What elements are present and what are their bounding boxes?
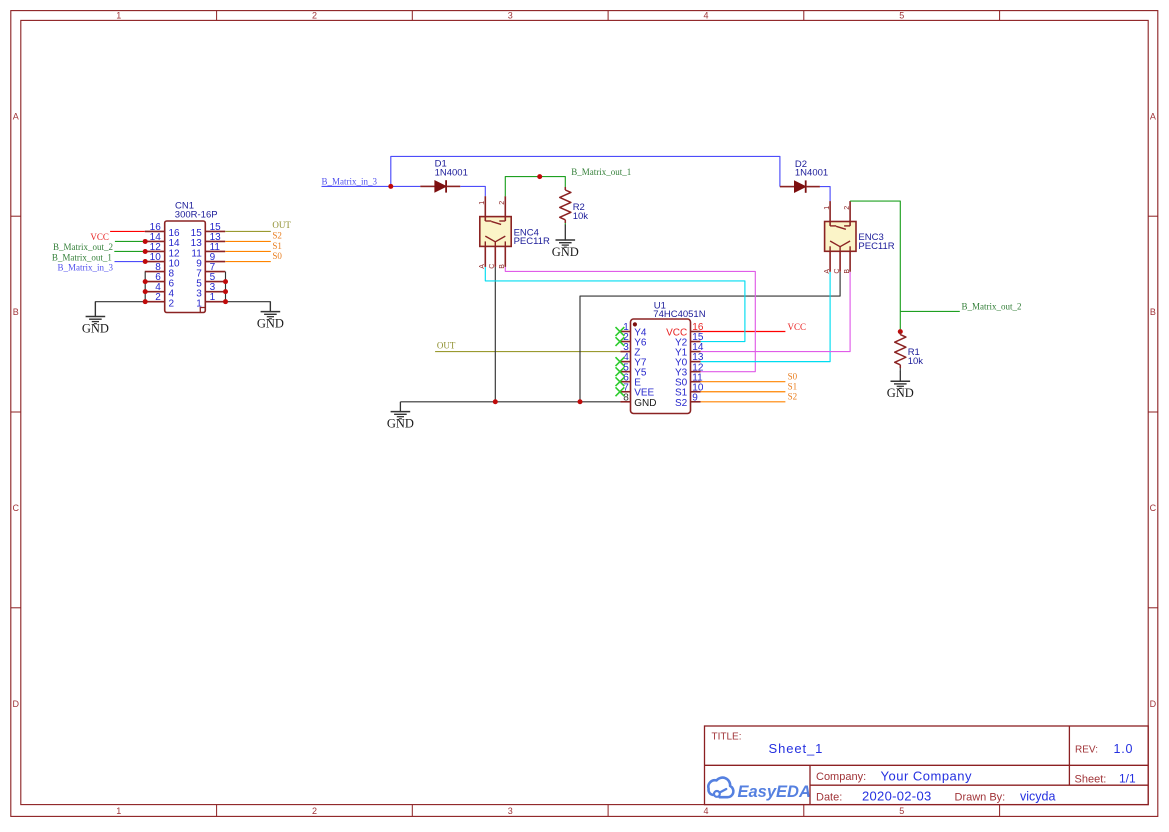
svg-text:1N4001: 1N4001 <box>795 168 828 179</box>
ground (CN1 left) <box>82 302 109 336</box>
svg-text:PEC11R: PEC11R <box>858 241 894 252</box>
svg-text:A: A <box>13 111 19 121</box>
net label OUT (CN1 pin 15) <box>272 220 291 230</box>
svg-text:3: 3 <box>508 806 513 816</box>
net label S2 (at U1) <box>788 391 798 401</box>
junction CN1 pin 10 <box>143 259 148 264</box>
junction CN1 pin 5 <box>223 279 228 284</box>
svg-text:Company:: Company: <box>816 771 866 783</box>
EasyEDA logo <box>708 778 811 801</box>
svg-text:Drawn By:: Drawn By: <box>955 791 1006 803</box>
junction B_Matrix_out_1 <box>537 174 542 179</box>
diode D2 1N4001 <box>780 159 828 193</box>
ground (R1) <box>887 371 914 400</box>
svg-text:1/1: 1/1 <box>1119 771 1136 785</box>
svg-text:vicyda: vicyda <box>1020 790 1055 804</box>
svg-text:10k: 10k <box>573 211 589 222</box>
svg-text:1: 1 <box>196 298 202 309</box>
svg-text:GND: GND <box>634 398 656 409</box>
svg-text:VCC: VCC <box>90 232 109 242</box>
net label S0 (at U1) <box>788 371 798 381</box>
svg-text:2: 2 <box>169 298 175 309</box>
svg-text:S2: S2 <box>788 391 798 401</box>
wire B_Matrix_in_3 label to junction <box>322 185 391 187</box>
net label S1 (CN1 pin 11) <box>272 241 282 251</box>
svg-text:B: B <box>13 307 19 317</box>
junction CN1 pin 2 <box>143 299 148 304</box>
wire D1 cathode to ENC4 pin 1 <box>460 186 485 196</box>
svg-text:2: 2 <box>155 292 161 303</box>
net label S0 (CN1 pin 9) <box>272 251 282 261</box>
wire S0 from U1 pin 11 <box>701 381 786 383</box>
wire D2 cathode to ENC3 pin 1 <box>820 187 830 202</box>
svg-text:TITLE:: TITLE: <box>712 732 742 743</box>
svg-text:C: C <box>1150 503 1157 513</box>
svg-text:S0: S0 <box>272 251 282 261</box>
svg-text:Sheet:: Sheet: <box>1075 773 1107 785</box>
net label VCC (CN1 pin 16) <box>90 232 109 242</box>
svg-text:B: B <box>1150 307 1156 317</box>
connector CN1 300R-16P <box>145 201 225 313</box>
junction ENC4 C on GND rail <box>493 399 498 404</box>
svg-text:S1: S1 <box>272 241 282 251</box>
wire ENC3 pin 2 to R1 (B_Matrix_out_2) <box>849 200 851 202</box>
svg-text:OUT: OUT <box>437 341 456 351</box>
wire ENC4 A to U1 pin 15 (cyan) <box>485 267 745 342</box>
svg-text:1: 1 <box>116 806 121 816</box>
svg-text:D: D <box>1150 699 1157 709</box>
svg-text:74HC4051N: 74HC4051N <box>653 309 705 320</box>
svg-text:S2: S2 <box>675 398 688 409</box>
net label B_Matrix_out_1 (CN1 pin 12) <box>52 252 112 262</box>
svg-text:GND: GND <box>257 317 284 331</box>
ground (CN1 right) <box>257 302 284 331</box>
net label S2 (CN1 pin 13) <box>272 230 282 240</box>
net label B_Matrix_in_3 (at D1) <box>322 177 378 187</box>
svg-text:B_Matrix_out_2: B_Matrix_out_2 <box>53 242 113 252</box>
svg-text:Sheet_1: Sheet_1 <box>769 741 824 756</box>
junction B_Matrix_in_3 node <box>388 184 393 189</box>
svg-text:S0: S0 <box>788 371 798 381</box>
wire B_Matrix_out_1 to CN1 pin 12 <box>114 250 145 252</box>
wire CN1 pins 8-6-4-2 bus to GND <box>95 272 145 317</box>
svg-text:2: 2 <box>312 806 317 816</box>
svg-text:1: 1 <box>116 10 121 20</box>
wire top run to D2 branch <box>391 156 780 186</box>
net label B_Matrix_out_2 (right) <box>962 301 1022 311</box>
wire B_Matrix_out_2 label stub <box>900 310 960 312</box>
svg-text:S1: S1 <box>788 381 798 391</box>
svg-text:D: D <box>13 699 20 709</box>
wire ENC3 pin C to GND rail <box>580 272 840 402</box>
wire ENC3 A to U1 pin 13 (cyan) <box>701 272 831 362</box>
title block <box>705 726 1149 805</box>
U1 pin numbers and names <box>623 322 704 409</box>
svg-text:1N4001: 1N4001 <box>435 168 468 179</box>
multiplexer U1 74HC4051N <box>620 300 705 413</box>
junction CN1 pin 14 <box>143 239 148 244</box>
svg-text:PEC11R: PEC11R <box>514 236 550 247</box>
junction ENC3 C on GND rail <box>578 399 583 404</box>
svg-text:8: 8 <box>623 392 629 403</box>
svg-text:9: 9 <box>692 392 698 403</box>
wire S1 from CN1 pin 11 <box>225 250 271 252</box>
junction CN1 pin 12 <box>143 249 148 254</box>
svg-text:B_Matrix_in_3: B_Matrix_in_3 <box>322 177 378 187</box>
svg-text:4: 4 <box>703 806 708 816</box>
net label B_Matrix_out_1 (at R2) <box>571 167 631 177</box>
net label B_Matrix_in_3 (CN1 pin 10) <box>58 262 114 272</box>
svg-text:4: 4 <box>703 10 708 20</box>
resistor R2 <box>560 187 589 223</box>
wire S2 from U1 pin 9 <box>701 401 786 403</box>
junction R1 top <box>898 329 903 334</box>
junction CN1 pin 3 <box>223 289 228 294</box>
rotary encoder ENC4 PEC11R <box>479 196 550 269</box>
svg-text:5: 5 <box>899 10 904 20</box>
wire OUT to U1 pin 3 <box>435 351 620 353</box>
svg-text:VCC: VCC <box>788 322 807 332</box>
svg-text:2020-02-03: 2020-02-03 <box>862 789 932 804</box>
wire CN1 pins 7-5-3-1 bus to GND <box>226 272 271 312</box>
svg-text:1: 1 <box>824 206 831 210</box>
CN1 pin numbers <box>150 222 221 310</box>
svg-text:Date:: Date: <box>816 791 842 803</box>
wire GND rail to U1 pin 8 <box>400 401 620 403</box>
wire ENC4 pin C to GND rail <box>494 267 496 402</box>
wire S0 from CN1 pin 9 <box>225 261 271 263</box>
junction CN1 pin 4 <box>143 289 148 294</box>
svg-text:2: 2 <box>312 10 317 20</box>
wire B_Matrix_in_3 to CN1 pin 10 <box>115 261 145 263</box>
svg-text:REV:: REV: <box>1075 745 1098 756</box>
svg-text:A: A <box>1150 111 1156 121</box>
ground (U1 rail) <box>387 402 414 431</box>
svg-text:3: 3 <box>508 10 513 20</box>
ground (R2) <box>552 225 579 260</box>
svg-text:1.0: 1.0 <box>1114 742 1134 756</box>
svg-text:2: 2 <box>844 206 851 210</box>
wire ENC4 B to U1 pin 12 (magenta) <box>505 267 755 372</box>
svg-text:Your Company: Your Company <box>881 768 973 783</box>
U1 no-connect marks <box>616 327 625 396</box>
wire ENC3 B to U1 pin 14 (magenta) <box>701 272 851 352</box>
wire S1 from U1 pin 10 <box>701 391 786 393</box>
wire R1 to GND <box>899 368 901 371</box>
wire R2 to GND <box>564 223 566 225</box>
diode D1 1N4001 <box>420 159 468 193</box>
svg-text:2: 2 <box>499 201 506 205</box>
svg-text:EasyEDA: EasyEDA <box>738 783 811 801</box>
junction CN1 pin 1 <box>223 299 228 304</box>
wire S2 from CN1 pin 13 <box>225 240 271 242</box>
svg-text:S2: S2 <box>272 230 282 240</box>
svg-text:1: 1 <box>210 292 216 303</box>
rotary encoder ENC3 PEC11R <box>824 201 895 274</box>
wire B_Matrix_out_2 to CN1 pin 14 <box>115 240 145 242</box>
svg-text:GND: GND <box>387 417 414 431</box>
svg-text:B_Matrix_out_1: B_Matrix_out_1 <box>52 252 112 262</box>
svg-text:B_Matrix_in_3: B_Matrix_in_3 <box>58 262 114 272</box>
svg-text:5: 5 <box>899 806 904 816</box>
svg-text:B_Matrix_out_1: B_Matrix_out_1 <box>571 167 631 177</box>
svg-text:1: 1 <box>479 201 486 205</box>
svg-text:OUT: OUT <box>272 220 291 230</box>
net label OUT (at U1 pin 3) <box>437 341 456 351</box>
wire VCC from U1 pin 16 <box>701 331 786 333</box>
svg-text:300R-16P: 300R-16P <box>175 210 218 221</box>
svg-text:GND: GND <box>887 386 914 400</box>
net label B_Matrix_out_2 (CN1 pin 14) <box>53 242 113 252</box>
junction CN1 pin 6 <box>143 279 148 284</box>
resistor R1 <box>895 332 924 368</box>
svg-text:GND: GND <box>552 245 579 259</box>
net label VCC (at U1) <box>788 322 807 332</box>
wire node to D1 anode <box>391 185 421 187</box>
wire ENC4 pin 2 to R2 (B_Matrix_out_1) <box>505 177 565 197</box>
wire VCC to CN1 pin 16 <box>110 230 145 232</box>
wire OUT from CN1 pin 15 <box>225 230 271 232</box>
svg-text:GND: GND <box>82 322 109 336</box>
svg-text:B_Matrix_out_2: B_Matrix_out_2 <box>962 301 1022 311</box>
svg-text:C: C <box>13 503 20 513</box>
net label S1 (at U1) <box>788 381 798 391</box>
svg-text:10k: 10k <box>908 356 924 367</box>
